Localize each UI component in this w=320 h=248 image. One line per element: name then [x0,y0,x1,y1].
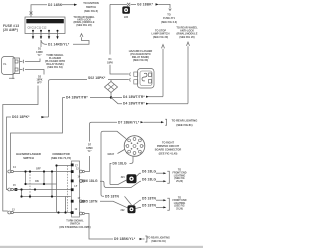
svg-text:18PK: 18PK [107,61,113,64]
turn signal switch label [59,218,90,228]
svg-text:D06 18LG: D06 18LG [82,179,98,183]
svg-text:1: 1 [134,137,135,139]
svg-text:S02 18PK*: S02 18PK* [88,76,106,80]
svg-text:25,26): 25,26) [176,180,183,183]
pcb connector circle [124,136,145,157]
row2 ON [26,183,57,185]
svg-text:(SEE FIG 23): (SEE FIG 23) [76,23,91,27]
row0 stub [57,165,71,167]
fuse block F13 [25,17,65,34]
wire D05 18TN to grommet 22 [81,199,128,207]
svg-text:D02 18PK*: D02 18PK* [12,115,30,119]
row1 OFF [14,171,71,173]
turn signal flasher [2,57,24,80]
text to fuse 71 [161,12,177,24]
svg-text:FUSE #71: FUSE #71 [163,16,175,20]
wire fuse pin2 to flasher [25,40,43,62]
svg-text:ON: ON [35,180,39,183]
svg-text:GRAY: GRAY [108,153,115,156]
wire G3 18BK to fuse 71 [110,3,171,11]
svg-text:(SEE FIG 81): (SEE FIG 81) [176,123,192,127]
svg-text:25,26): 25,26) [176,208,183,211]
svg-text:SWITCH: SWITCH [23,156,34,160]
wire D4 from switch [63,96,113,100]
svg-text:6: 6 [126,153,127,155]
strip pins [71,164,74,167]
wire D1 18PK vertical [107,4,130,76]
svg-text:D5 18TN: D5 18TN [105,194,120,198]
svg-text:TO REAR LIGHTING: TO REAR LIGHTING [172,118,198,122]
wire D9 to rear lighting [85,214,170,244]
junction dots [20,164,72,213]
text to front end lighting bottom [173,196,187,210]
arrow up stop lamp [162,45,165,49]
wire D06 18LG to grommet 21 [80,179,141,187]
svg-text:D6 18LG: D6 18LG [142,169,157,173]
wire D02 18PK down to switch [7,115,49,190]
splice diamond S02 [105,80,118,98]
wires from 22 to front lighting [134,196,170,210]
wire alpha circle top [101,131,126,194]
svg-text:4: 4 [140,153,141,155]
wire A from circle via x110 to grommet 21 [110,180,127,185]
wire D4 to stop lamp [111,95,163,99]
svg-text:D4 18WT/TR*: D4 18WT/TR* [123,102,145,106]
svg-text:D9 18BK/YL*: D9 18BK/YL* [114,237,136,241]
svg-text:TO: TO [167,12,171,16]
hazard flasher label [129,49,153,62]
svg-text:C8 C13 C11 C12: C8 C13 C11 C12 [28,27,47,30]
svg-text:YL*: YL* [88,150,92,153]
fuse label [3,24,19,32]
svg-text:YL*: YL* [38,54,42,57]
svg-text:(SEE FIG 64): (SEE FIG 64) [133,58,148,62]
svg-text:(ON STEERING COLUMN): (ON STEERING COLUMN) [59,225,90,229]
wire D4 to rwal [111,98,188,106]
svg-text:SWITCH: SWITCH [86,5,96,9]
fuse pins [32,32,59,40]
wire S02 18PK to hazard flasher [49,76,131,117]
wire D6 18LG from circle [110,156,133,184]
grommet #23 [122,6,130,18]
wire D1 14RD to rwal [41,34,89,47]
svg-text:CONNECTOR: CONNECTOR [52,152,69,156]
svg-text:(SEE FIG 81): (SEE FIG 81) [151,240,166,243]
wire D5 18TN from circle wire to 22 [101,194,132,205]
wire flasher out W1 [3,70,44,212]
svg-text:(SEE FIG 64): (SEE FIG 64) [47,65,62,69]
svg-text:D5 18TN: D5 18TN [142,196,157,200]
text to rwal module right [176,25,198,38]
wire to stop lamp vertical [162,49,164,97]
svg-text:#21: #21 [121,176,126,179]
turn signal flasher label [45,53,65,69]
svg-text:#23: #23 [124,16,129,19]
svg-text:3: 3 [143,146,144,148]
grommet #21 [121,174,137,183]
text to rwal module center [73,15,95,27]
svg-text:(SEE FIG 2.3): (SEE FIG 2.3) [161,20,177,24]
svg-text:D1 14RD/YL*: D1 14RD/YL* [48,42,70,46]
bottom scan band [0,246,203,248]
svg-text:2: 2 [141,139,142,141]
text to stop lamp switch [152,29,170,39]
svg-text:WT*: WT* [37,81,42,84]
right exit contacts [80,170,85,215]
wire D7 ground from switch [85,119,167,171]
svg-text:D6 18LG: D6 18LG [142,178,157,182]
svg-text:D4 18WT/TR*: D4 18WT/TR* [66,96,88,100]
matrix verticals [22,166,66,213]
row5 [14,212,71,214]
svg-text:7: 7 [125,146,126,148]
svg-text:TO REAR LIGHTING: TO REAR LIGHTING [147,236,170,239]
text to front end lighting top [173,169,187,183]
svg-text:TO RIGHT: TO RIGHT [162,140,175,144]
hazard flasher connector [134,69,154,89]
svg-text:(SEE FIG 20): (SEE FIG 20) [179,35,194,39]
wire to rwal vertical [187,46,189,103]
svg-text:G3 18BK*: G3 18BK* [137,3,154,7]
connector strip [72,161,80,217]
text to ignition switch [83,1,99,13]
row3 [14,189,71,191]
arrow up rwal [187,42,190,46]
svg-text:HAZARD/FLASHER: HAZARD/FLASHER [16,152,41,156]
wires from 21 to front lighting [137,169,170,183]
svg-text:5: 5 [134,155,135,157]
svg-text:8: 8 [126,139,127,141]
svg-text:#22: #22 [121,209,126,212]
svg-text:BOARD CONNECTOR: BOARD CONNECTOR [155,148,182,152]
svg-text:D2 14BK: D2 14BK [48,3,63,7]
switch matrix [8,152,85,217]
svg-text:D6 18LG: D6 18LG [113,161,128,165]
wire fuse top to ignition [30,3,78,17]
svg-text:D4 18WT/TR*: D4 18WT/TR* [123,95,145,99]
text to rear lighting top [172,118,198,127]
svg-text:TO IGNITION: TO IGNITION [83,1,99,5]
svg-text:(SEE FIG 41,45): (SEE FIG 41,45) [159,152,178,156]
svg-text:PRINTED CIRCUIT: PRINTED CIRCUIT [157,144,180,148]
svg-text:D7 18BK/YL*: D7 18BK/YL* [118,120,140,124]
svg-text:D05 18TN: D05 18TN [82,199,98,203]
svg-text:(SEE FIG 71,72): (SEE FIG 71,72) [51,156,71,160]
grommet #22 [121,205,136,213]
text to right pcb connector [155,140,182,155]
dashed verticals [30,166,68,214]
gray label [108,150,125,157]
svg-text:(SEE FIG 8): (SEE FIG 8) [84,9,98,13]
svg-text:OFF: OFF [36,168,41,171]
svg-text:(SEE FIG 20): (SEE FIG 20) [153,35,168,39]
row4 [22,196,71,198]
svg-text:(20 AMP): (20 AMP) [3,28,18,32]
svg-text:D5 18TN: D5 18TN [142,204,157,208]
wire W4 D4 down to switch [11,98,63,171]
